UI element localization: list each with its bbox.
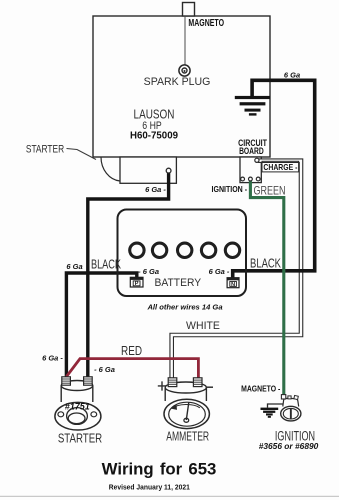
svg-text:BLACK: BLACK xyxy=(250,257,281,271)
svg-text:CHARGE -: CHARGE - xyxy=(263,162,297,172)
svg-text:All other wires 14 Ga: All other wires 14 Ga xyxy=(146,302,222,311)
svg-text:6 Ga -: 6 Ga - xyxy=(209,267,230,276)
svg-text:6 Ga: 6 Ga xyxy=(284,70,300,79)
svg-text:- 6 Ga: - 6 Ga xyxy=(94,365,115,374)
svg-text:BOARD: BOARD xyxy=(239,146,264,156)
svg-text:AMMETER: AMMETER xyxy=(166,430,209,444)
svg-text:N: N xyxy=(231,282,235,288)
svg-text:MAGNETO -: MAGNETO - xyxy=(241,384,281,394)
svg-text:BLACK: BLACK xyxy=(91,258,122,272)
svg-text:RED: RED xyxy=(121,345,142,358)
svg-text:MAGNETO: MAGNETO xyxy=(188,17,224,29)
svg-text:Wiring for 653: Wiring for 653 xyxy=(102,460,217,479)
svg-text:- 6 Ga: - 6 Ga xyxy=(138,267,159,276)
svg-text:6 Ga: 6 Ga xyxy=(66,262,82,271)
svg-text:IGNITION -: IGNITION - xyxy=(212,185,248,195)
svg-text:BATTERY: BATTERY xyxy=(155,277,202,289)
svg-text:SPARK PLUG: SPARK PLUG xyxy=(144,76,211,88)
svg-text:#1751: #1751 xyxy=(65,401,90,411)
svg-text:Revised January 11, 2021: Revised January 11, 2021 xyxy=(109,482,190,492)
svg-text:STARTER: STARTER xyxy=(58,431,102,446)
svg-text:6 Ga -: 6 Ga - xyxy=(42,354,63,363)
svg-text:#3656 or #6890: #3656 or #6890 xyxy=(259,441,319,451)
svg-text:6 Ga -: 6 Ga - xyxy=(145,185,166,194)
svg-text:GREEN: GREEN xyxy=(254,184,286,198)
svg-text:STARTER: STARTER xyxy=(26,143,64,156)
svg-text:P: P xyxy=(135,281,139,287)
svg-text:H60-75009: H60-75009 xyxy=(130,131,178,142)
svg-text:WHITE: WHITE xyxy=(186,320,220,332)
